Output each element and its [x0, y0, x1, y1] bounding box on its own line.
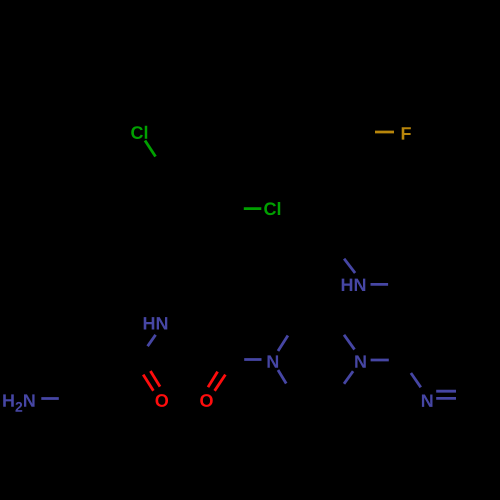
atom label N (piperazine right nitrogen) [355, 355, 366, 367]
wire bond NH down-left [148, 335, 156, 346]
atom label N (piperazine left nitrogen) [268, 355, 279, 367]
wire bond HN right [371, 283, 389, 286]
atom label H2N (primary amine) [3, 394, 34, 411]
wire bond Cl2 horizontal [244, 207, 261, 210]
wire C=O left double bond line a [143, 375, 153, 391]
wire double bond Npy lower line [436, 397, 456, 400]
wire C=O left double bond line b [150, 371, 160, 387]
atom label N (pyridine nitrogen) [422, 395, 433, 407]
wire bond N1 left horizontal [244, 358, 261, 361]
wire bond F horizontal [375, 131, 394, 134]
wire C=O right double bond line b [215, 375, 226, 391]
atom label HN (secondary amine right) [342, 279, 366, 291]
wire bond HN up-left [344, 259, 355, 273]
wire double bond Npy upper line [436, 390, 456, 393]
atom label HN (amide NH left) [144, 317, 168, 329]
wire bond Npy up-left diagonal [411, 373, 421, 387]
wire C=O right double bond line a [208, 372, 218, 388]
wire bond H2N right horizontal [41, 397, 59, 400]
wire bond N1 up-right [278, 336, 288, 352]
atom label Cl (top-left chlorine) [131, 126, 147, 139]
wire bond N1 down-right [278, 370, 286, 384]
atom label Cl (right chlorine) [264, 202, 280, 215]
atom label O (left carbonyl oxygen) [156, 394, 169, 407]
atom label F (fluorine) [402, 127, 411, 139]
wire bond Cl1 to ring carbon [145, 141, 156, 157]
wire bond N2 down-left [344, 371, 353, 384]
wire bond N2 up-left [344, 335, 355, 350]
wire bond N2 right horizontal [371, 359, 389, 362]
atom label O (right carbonyl oxygen) [200, 394, 213, 407]
